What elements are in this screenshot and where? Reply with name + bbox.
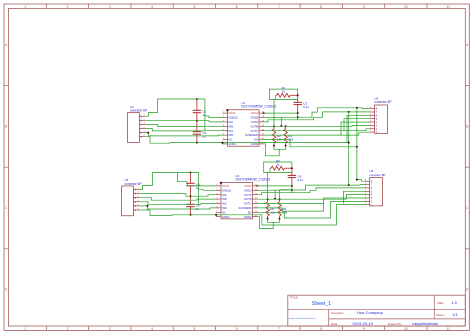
svg-text:B: B [466, 125, 468, 129]
svg-text:10: 10 [404, 5, 408, 9]
svg-text:0.1u: 0.1u [298, 178, 304, 182]
connector U3 pin 4 [370, 118, 375, 120]
svg-text:NC: NC [222, 210, 226, 214]
connector U6 pin 5 [365, 194, 370, 196]
wire U5 pin4 to U4 INC [139, 202, 216, 205]
connector U6 pin 2 [365, 184, 370, 186]
IC U4 pin 6 IND [216, 207, 221, 209]
wire R4 left lead [270, 167, 271, 169]
connector U6 pin 3 [365, 187, 370, 189]
svg-text:VCC2: VCC2 [251, 111, 259, 115]
IC U4 pin 10 EN [253, 211, 258, 213]
junction R1 right [297, 94, 299, 96]
wire bottom GND stub [215, 215, 217, 217]
svg-text:5: 5 [194, 327, 196, 331]
connector U3 pin 7 [370, 128, 375, 130]
IC U4 pin 7 NC [216, 211, 221, 213]
wire U3 pin4 tap [344, 119, 370, 131]
IC U1 pin 16 VCC2 [259, 112, 264, 114]
svg-text:SUSPEND: SUSPEND [239, 206, 252, 210]
wire U3 pin3 tap [347, 115, 370, 142]
svg-text:conector 8P: conector 8P [370, 173, 386, 177]
wire U5 pin5 to U4 IND [139, 206, 216, 209]
junction C4 top [190, 172, 192, 174]
svg-text:5: 5 [194, 5, 196, 9]
IC U4 pin 11 SUSPEND [253, 207, 258, 209]
svg-text:VCC1: VCC1 [229, 111, 237, 115]
svg-text:ISO7240MDW_C33023: ISO7240MDW_C33023 [241, 105, 276, 109]
svg-text:VCC1: VCC1 [222, 184, 230, 188]
junction R3 bottom [285, 145, 287, 147]
svg-text:OUTA: OUTA [251, 120, 258, 124]
svg-text:1k: 1k [276, 162, 280, 166]
junction R3 top [285, 125, 287, 127]
wire node A to U6 pin2 link [292, 185, 349, 190]
wire C6 to node [291, 186, 293, 193]
connector U5 pin 1 [133, 189, 139, 191]
junction R4 right [291, 167, 293, 169]
connector U3 pin 3 [370, 114, 375, 116]
svg-text:ISO7240MDW_C33023: ISO7240MDW_C33023 [236, 177, 271, 181]
svg-text:7: 7 [278, 5, 280, 9]
svg-text:INC: INC [222, 202, 227, 206]
junction GND1 [221, 142, 223, 144]
connector U6 [370, 178, 383, 206]
connector U3 pin 1 [370, 108, 375, 110]
wire U3 pin1 to U6 pin1 link [357, 108, 365, 181]
wire R1 loop [269, 89, 297, 99]
svg-text:GND1: GND1 [222, 215, 230, 219]
junction U2 pin5 [147, 132, 149, 134]
junction U4 top-left [220, 182, 222, 184]
wire R2 bottom lead [273, 143, 275, 146]
IC U1 pin 14 OUTA [259, 121, 264, 123]
wire U5 pin6 to GND bus [139, 210, 190, 216]
wire U3 pin5 tap [341, 122, 370, 135]
svg-text:1.0: 1.0 [451, 300, 457, 305]
IC U1 pin 3 INA [223, 121, 228, 123]
wire GND2b to C6 node [258, 189, 292, 191]
wire VCC2 to C3 [264, 112, 298, 114]
wire U2 pin3 to U1 INB [145, 124, 222, 126]
resistor R5 [266, 202, 270, 216]
wire R3 bottom lead [285, 143, 287, 146]
svg-text:11: 11 [447, 327, 451, 331]
connector U2 pin 3 [139, 123, 145, 125]
wire R5R6 bottom bus [268, 219, 280, 223]
junction R2R3 top bus [280, 125, 282, 127]
svg-text:9: 9 [363, 5, 365, 9]
svg-text:Sheet:: Sheet: [436, 313, 445, 317]
wire R1 left drop [275, 95, 277, 99]
svg-text:OUTB: OUTB [244, 197, 252, 201]
connector U2 pin 5 [139, 132, 145, 134]
junction R5 bottom [267, 218, 269, 220]
IC U1 pin 4 INB [223, 125, 228, 127]
svg-text:9: 9 [363, 327, 365, 331]
wire R2 top riser [273, 100, 275, 127]
connector U5 pin 5 [133, 205, 139, 207]
wire R6 top lead [279, 199, 281, 202]
wire R4 left drop [269, 168, 271, 172]
junction C1 top [196, 98, 198, 100]
svg-text:GND2: GND2 [244, 188, 252, 192]
wire OUTA to node B [264, 120, 298, 122]
wire U2 pin6 to GND bus [145, 137, 197, 144]
junction C1-C2 mid [196, 120, 198, 122]
svg-text:0.1u: 0.1u [303, 105, 309, 109]
junction U5 pin5 [147, 205, 149, 207]
wire GND2 to C3 node [264, 116, 298, 118]
title block [288, 295, 466, 326]
svg-text:Sheet_1: Sheet_1 [312, 301, 331, 307]
svg-text:1/1: 1/1 [452, 312, 458, 317]
wire R1 right lead [290, 94, 298, 96]
junction U6 pin1 node [356, 179, 358, 181]
svg-text:GND2: GND2 [244, 215, 252, 219]
wire OUTAb to node B [258, 193, 292, 195]
junction R2 top [273, 125, 275, 127]
wire R2R3 bottom bus [274, 146, 286, 150]
wire OUTC to U3 pin7 [264, 129, 370, 131]
wire U3 pin2 to U6 pin2 link [348, 112, 350, 185]
wire GND2b to R5R6 drop [274, 190, 276, 199]
svg-text:INC: INC [229, 129, 234, 133]
junction R2 bottom [273, 145, 275, 147]
svg-text:10: 10 [404, 327, 408, 331]
wire node B to U3 pin2 [298, 112, 370, 120]
capacitor C3 [297, 95, 299, 102]
IC U4 [221, 183, 253, 219]
wire EN bus [264, 140, 357, 147]
connector U6 pin 1 [365, 180, 370, 182]
junction GND bus to link [348, 142, 350, 144]
wire GND1 bus [197, 142, 349, 144]
junction U6 pin2 node [348, 184, 350, 186]
junction C3 node B [297, 116, 299, 118]
junction R5R6 top bus [274, 198, 276, 200]
resistor R2 [272, 129, 276, 143]
svg-text:IND: IND [222, 206, 227, 210]
svg-text:7: 7 [278, 327, 280, 331]
IC U4 pin 15 GND2 [253, 189, 258, 191]
svg-text:VCC2: VCC2 [244, 184, 252, 188]
wire SUSPENDb to U6 pin6 [258, 198, 365, 211]
wire R1 left lead [276, 94, 277, 96]
wire OUTCb bus [258, 203, 324, 205]
junction bottom GND [215, 214, 217, 216]
junction C6 node A [291, 185, 293, 187]
IC U4 pin 16 VCC2 [253, 185, 258, 187]
svg-text:INB: INB [229, 124, 234, 128]
junction C5 bottom [190, 214, 192, 216]
svg-text:OUTA: OUTA [244, 193, 251, 197]
svg-text:GND(2): GND(2) [222, 188, 231, 192]
connector U6 pin 6 [365, 197, 370, 199]
connector U2 [128, 113, 140, 143]
svg-text:SUSPEND: SUSPEND [245, 133, 258, 137]
svg-text:REV:: REV: [438, 301, 445, 305]
wire R6 top link [280, 190, 292, 200]
IC U1 pin 10 EN [259, 139, 264, 141]
wire U2 pin1 to U1 GND [145, 99, 222, 118]
capacitor C1 [196, 99, 198, 110]
IC U4 pin 5 INC [216, 203, 221, 205]
junction R5 top [267, 198, 269, 200]
connector U3 pin 5 [370, 121, 375, 123]
wire R4 right lead [285, 167, 292, 169]
wire U2 pin4 to U1 INC [145, 129, 222, 131]
IC U4 pin 8 GND1 [216, 216, 221, 218]
resistor R1 [277, 93, 290, 97]
wire VCC1 feed [178, 173, 217, 186]
svg-text:2: 2 [67, 5, 69, 9]
svg-text:NC: NC [229, 138, 233, 142]
connector U6 pin 4 [365, 190, 370, 192]
svg-text:1: 1 [24, 327, 26, 331]
wire SUSPEND to U3 pin8 [264, 132, 370, 135]
wire riser to INC row [204, 116, 206, 131]
svg-text:conector 8P: conector 8P [375, 100, 392, 104]
IC U1 pin 7 NC [223, 139, 228, 141]
wire GND2 to R2R3 drop [280, 117, 282, 126]
IC U4 pin 13 OUTB [253, 198, 258, 200]
wire GND1 stub [221, 143, 223, 144]
connector U3 pin 2 [370, 111, 375, 113]
wire U5 pin1 to U4 GND [139, 173, 216, 191]
svg-text:8: 8 [320, 5, 322, 9]
svg-text:conector 6P: conector 6P [130, 109, 147, 113]
junction C4-C5 mid [190, 195, 192, 197]
svg-text:OUTC: OUTC [250, 129, 258, 133]
IC U1 pin 5 INC [223, 130, 228, 132]
resistor R4 [271, 166, 284, 170]
svg-text:INB: INB [222, 197, 227, 201]
IC U1 pin 2 GND(2) [223, 117, 228, 119]
wire ENb to U6 pin7 [258, 201, 365, 218]
svg-text:2: 2 [67, 327, 69, 331]
wire R5 top lead [267, 199, 269, 202]
svg-text:1u: 1u [202, 134, 206, 138]
wire R5 top riser [267, 172, 269, 199]
wire R6 bottom lead [279, 216, 281, 219]
connector U5 pin 4 [133, 201, 139, 203]
IC U1 pin 13 OUTB [259, 125, 264, 127]
wire R4 loop [264, 162, 292, 172]
wire U6 pin4 tap [343, 191, 364, 203]
IC U1 pin 11 SUSPEND [259, 134, 264, 136]
wire bottom GND bus [191, 214, 262, 216]
svg-text:3: 3 [109, 327, 111, 331]
resistor R6 [278, 202, 282, 216]
connector U3 pin 8 [370, 131, 375, 133]
IC U1 [228, 110, 260, 146]
svg-text:INA: INA [229, 120, 234, 124]
connector U2 pin 6 [139, 136, 145, 138]
svg-text:OUTC: OUTC [244, 202, 252, 206]
junction R6 bottom [279, 218, 281, 220]
svg-text:EN: EN [248, 210, 252, 214]
wire OUTB to R2 R3 to U3 pin6 [264, 124, 370, 127]
wire node A to U3 pin1 [298, 108, 370, 117]
IC U4 pin 3 INA [216, 194, 221, 196]
connector U5 pin 6 [133, 209, 139, 211]
connector U2 pin 4 [139, 128, 145, 130]
IC U1 pin 6 IND [223, 134, 228, 136]
svg-text:GND(2): GND(2) [229, 116, 238, 120]
svg-text:conector 6P: conector 6P [125, 182, 142, 186]
svg-text:Company:: Company: [331, 311, 345, 315]
IC U4 pin 4 INB [216, 198, 221, 200]
junction U3 pin2 node [348, 111, 350, 113]
wire R3 top lead [285, 126, 287, 129]
IC U1 pin 15 GND2 [259, 117, 264, 119]
IC U4 pin 14 OUTA [253, 194, 258, 196]
wire GND2b right stub [258, 217, 274, 229]
connector U2 pin 2 [139, 119, 145, 121]
svg-text:Drawn By:: Drawn By: [388, 322, 402, 326]
connector U6 pin 8 [365, 204, 370, 206]
IC U1 pin 8 GND1 [223, 143, 228, 145]
svg-text:2019-03-19: 2019-03-19 [352, 321, 373, 326]
connector U5 [122, 186, 134, 216]
wire OUTBb to R5 R6 to U6 pin5 [258, 195, 365, 200]
junction C2 bottom [196, 142, 198, 144]
IC U4 pin 1 VCC1 [216, 185, 221, 187]
junction C3 node A [297, 112, 299, 114]
junction U1 top-left [226, 109, 228, 111]
wire VCC2b to C6 [258, 185, 292, 187]
svg-text:INA: INA [222, 193, 227, 197]
svg-text:8: 8 [320, 327, 322, 331]
connector U3 [375, 105, 388, 133]
junction U3 pin1 node [356, 107, 358, 109]
connector U6 pin 7 [365, 200, 370, 202]
resistor R3 [284, 129, 288, 143]
wire node B to U6 pin3 [292, 188, 365, 193]
IC U4 pin 2 GND(2) [216, 189, 221, 191]
svg-text:Date:: Date: [331, 322, 338, 326]
IC U4 pin 12 OUTC [253, 203, 258, 205]
wire R2 top lead [273, 126, 275, 129]
wire C3 to VCC2 node [297, 113, 299, 120]
wire U2 pin2 to U1 INA [145, 120, 222, 122]
capacitor C5 [190, 196, 192, 204]
capacitor C2 [196, 121, 198, 132]
connector U3 pin 6 [370, 124, 375, 126]
connector U5 pin 2 [133, 193, 139, 195]
wire R5 bottom lead [267, 216, 269, 219]
svg-text:6: 6 [236, 327, 238, 331]
svg-text:Your Company: Your Company [356, 310, 382, 315]
svg-text:1k: 1k [282, 89, 286, 93]
wire U5 pin2 to U4 INA [139, 194, 216, 197]
svg-text:miguelesteban: miguelesteban [412, 321, 438, 326]
IC U1 pin 9 GND2 [259, 143, 264, 145]
junction VCC2 stub [263, 112, 265, 114]
junction R6 top [279, 198, 281, 200]
junction C6 node B [291, 189, 293, 191]
svg-text:1: 1 [24, 5, 26, 9]
capacitor C4 [190, 173, 192, 184]
svg-text:6: 6 [236, 5, 238, 9]
svg-text:EN: EN [254, 138, 258, 142]
wire U2 pin5 to U1 IND [145, 133, 222, 136]
connector U2 pin 1 [139, 115, 145, 117]
connector U5 pin 3 [133, 197, 139, 199]
wire GNDb to U6 pin8 [262, 205, 365, 225]
junction EN link [356, 146, 358, 148]
IC U1 pin 12 OUTC [259, 130, 264, 132]
svg-text:4: 4 [151, 327, 153, 331]
svg-text:TITLE:: TITLE: [290, 296, 299, 300]
wire U5 pin3 to U4 INB [139, 198, 216, 201]
svg-text:4: 4 [151, 5, 153, 9]
wire GND bus link [349, 184, 365, 187]
junction VCC2b stub [256, 185, 258, 187]
wire riser to INCb row [198, 189, 200, 204]
svg-text:B: B [5, 125, 7, 129]
IC U1 pin 1 VCC1 [223, 112, 228, 114]
svg-text:IND: IND [229, 133, 234, 137]
capacitor C6 [291, 168, 293, 175]
svg-text:11: 11 [447, 5, 451, 9]
svg-text:GND2: GND2 [251, 116, 259, 120]
wire GND2 right stub [264, 144, 279, 156]
svg-text:OUTB: OUTB [251, 124, 259, 128]
IC U4 pin 9 GND2 [253, 216, 258, 218]
svg-text:3: 3 [109, 5, 111, 9]
